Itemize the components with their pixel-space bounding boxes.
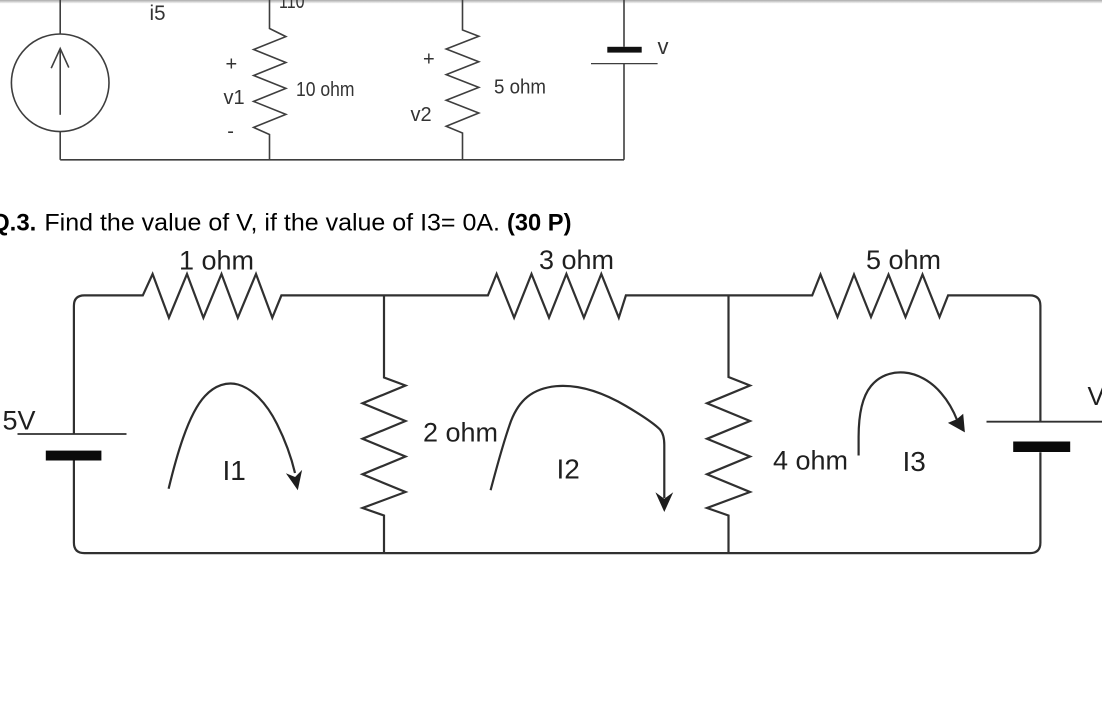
svg-text:v2: v2 [411, 104, 432, 126]
svg-text:I3: I3 [903, 446, 926, 477]
svg-text:-: - [227, 121, 234, 143]
svg-text:+: + [423, 49, 435, 71]
svg-text:v1: v1 [224, 87, 245, 109]
svg-text:I1: I1 [223, 455, 246, 486]
svg-text:10 ohm: 10 ohm [296, 78, 355, 101]
svg-text:i5: i5 [150, 1, 166, 25]
svg-text:1 ohm: 1 ohm [179, 246, 254, 276]
svg-text:Find the value of V, if the va: Find the value of V, if the value of I3=… [44, 209, 500, 236]
svg-text:110: 110 [279, 0, 305, 13]
svg-text:5 ohm: 5 ohm [494, 76, 546, 99]
svg-text:V: V [1088, 381, 1102, 411]
svg-text:v: v [658, 34, 669, 59]
svg-text:(30 P): (30 P) [507, 209, 572, 236]
svg-text:2 ohm: 2 ohm [423, 418, 498, 448]
svg-text:3 ohm: 3 ohm [539, 245, 614, 275]
svg-text:5V: 5V [3, 406, 36, 436]
svg-text:4 ohm: 4 ohm [773, 445, 848, 475]
svg-text:I2: I2 [557, 454, 580, 485]
svg-text:5 ohm: 5 ohm [866, 245, 941, 275]
svg-text:+: + [226, 54, 238, 76]
svg-text:Q.3.: Q.3. [0, 209, 36, 236]
